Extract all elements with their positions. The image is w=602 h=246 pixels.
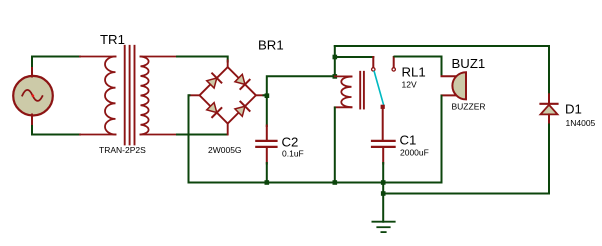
wire relay NO to buzzer [395,57,442,77]
relay RL1 coil [335,76,352,107]
relay RL1 bottom contact [381,105,385,109]
svg-text:BR1: BR1 [258,38,284,53]
svg-text:2W005G: 2W005G [208,145,242,155]
wire source top vertical [32,57,81,77]
bridge diode top-right [234,73,250,89]
svg-text:2000uF: 2000uF [400,148,429,158]
buzzer BUZ1 pin1 [442,75,457,77]
bridge rectifier BR1 frame [189,67,264,134]
ground [372,222,394,232]
wire C2 bottom [266,163,268,183]
bridge diode bottom-left [206,102,222,118]
transformer TR1 secondary pin top [141,56,179,58]
svg-text:TRAN-2P2S: TRAN-2P2S [99,145,146,155]
wire source bottom vertical [32,115,81,135]
junction C2 top [265,93,270,98]
top rail [335,45,549,47]
bridge diode top-left [206,73,222,89]
ground rail [383,193,549,195]
wire C2 node down [266,96,268,126]
buzzer BUZ1 body [452,72,466,99]
bridge top pin [227,61,229,68]
relay RL1 NO pin [392,57,395,71]
transformer TR1 secondary pin bottom [141,134,179,136]
wire to relay common [335,56,374,58]
junction riser rail2 [333,55,338,60]
bridge diode bottom-right [234,102,250,118]
svg-text:12V: 12V [402,80,417,90]
svg-text:0.1uF: 0.1uF [282,149,304,159]
wire C2 node up and right to coil node [267,76,335,96]
wire C1 bottom [382,163,384,194]
svg-text:1N4005: 1N4005 [566,118,596,128]
transformer TR1 primary winding [105,57,116,135]
junction riser coil [333,74,338,79]
junction coil bottom rail [333,180,338,185]
wire ground stem [382,194,384,222]
svg-text:D1: D1 [565,102,582,117]
wire buzzer bottom [441,96,443,183]
relay RL1 common pin [372,57,375,71]
svg-text:BUZZER: BUZZER [452,102,486,112]
svg-text:RL1: RL1 [402,65,426,80]
transformer TR1 core [125,46,135,145]
junction ground node [381,191,386,196]
relay RL1 blade [374,72,384,106]
wire secondary top to bridge [177,57,228,62]
junction C1 rail1 [381,180,386,185]
wire bridge right to C2 node [264,94,267,96]
transformer TR1 primary pin bottom [80,134,116,136]
relay RL1 core [360,72,364,109]
transformer TR1 secondary winding [141,57,149,135]
capacitor C1 [372,141,395,164]
wire bridge left to bottom rail [189,95,190,182]
diode D1 bottom wire [548,125,550,194]
svg-text:C1: C1 [400,133,417,148]
bottom rail [189,182,442,184]
svg-text:TR1: TR1 [100,32,125,47]
AC source [13,76,53,116]
capacitor C2 [256,126,276,164]
relay RL1 bottom pin [382,109,384,141]
svg-text:BUZ1: BUZ1 [452,56,486,71]
svg-text:C2: C2 [282,135,299,150]
wire secondary bottom to bridge [177,134,227,136]
wire DC+ riser [334,46,336,77]
diode D1 [541,94,558,125]
wire coil bottom [334,108,336,183]
buzzer BUZ1 pin2 [442,94,457,96]
diode D1 top wire [548,46,550,94]
junction C2 bottom [265,180,270,185]
transformer TR1 primary pin top [80,56,116,58]
